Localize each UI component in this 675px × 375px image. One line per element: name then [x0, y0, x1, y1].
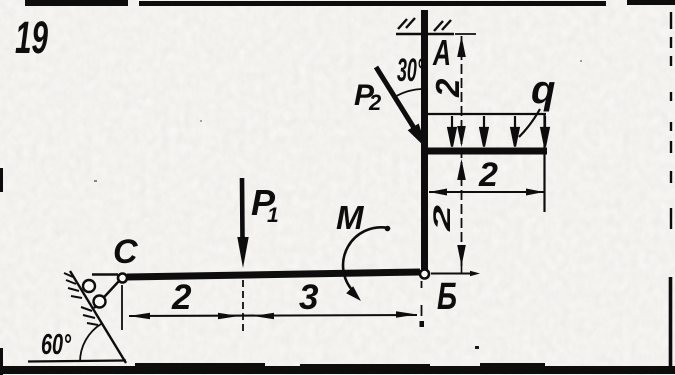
60 deg arc [80, 324, 102, 362]
svg-text:C: C [113, 233, 138, 271]
svg-text:60°: 60° [41, 329, 71, 361]
frame top border [25, 0, 675, 6]
svg-text:2: 2 [171, 278, 192, 317]
pin C [118, 274, 127, 283]
force P1 arrow [237, 178, 248, 268]
label P1 [251, 182, 279, 227]
column AB (vertical member) [421, 10, 428, 270]
wall support at A [396, 18, 454, 34]
svg-text:3: 3 [299, 278, 319, 317]
label P2 [354, 79, 382, 115]
frame right border [669, 12, 672, 372]
load arrows [448, 116, 549, 147]
dim line 2 under right member [429, 189, 544, 196]
moment M arc [343, 226, 390, 301]
member at B-right (horizontal) [423, 148, 547, 155]
label q with leader [519, 68, 555, 137]
bottom dimension line C to B [129, 311, 417, 319]
svg-text:2: 2 [368, 90, 382, 115]
roller support at C [70, 271, 126, 363]
svg-text:1: 1 [267, 204, 279, 227]
force P2 arrow [376, 67, 427, 149]
frame left border marks [0, 168, 3, 375]
extension tick below C [121, 285, 123, 330]
angle arc 30 deg [394, 89, 424, 98]
extension tick below P1 (dashed) [242, 280, 244, 331]
svg-text:M: M [336, 199, 365, 236]
hatching on incline [64, 273, 98, 325]
svg-text:30°: 30° [397, 52, 424, 88]
svg-text:2: 2 [429, 78, 466, 98]
extension tick below B (dashed) [420, 281, 425, 327]
dust specks [94, 60, 582, 349]
pin B [420, 270, 429, 279]
svg-text:A: A [432, 32, 451, 73]
distributed load q top line [428, 113, 546, 115]
svg-text:2: 2 [478, 156, 498, 194]
ground line at support [28, 361, 126, 362]
beam CB [127, 272, 420, 277]
right end extension tick [543, 114, 545, 212]
svg-text:2: 2 [429, 204, 456, 233]
vertical dimension line x=461 [455, 34, 476, 266]
svg-text:19: 19 [15, 12, 48, 63]
B-level reference line with arrow [431, 262, 480, 276]
svg-text:q: q [531, 68, 555, 112]
svg-text:Б: Б [437, 276, 457, 318]
frame bottom border [0, 363, 675, 374]
